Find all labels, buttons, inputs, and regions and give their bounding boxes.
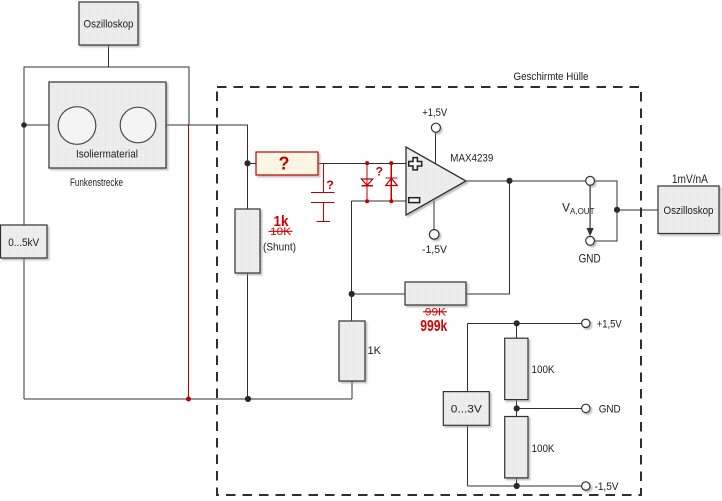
- op-amp - symbol: [409, 198, 420, 203]
- resistor Rf 999k body: [405, 282, 466, 305]
- source box 0...3V: [443, 392, 489, 426]
- wire +1.5V supply to op-amp: [435, 132, 437, 164]
- wire shunt bottom to rail: [247, 273, 249, 399]
- wire scope-top drop: [108, 45, 110, 67]
- wire left vertical lower: [23, 258, 25, 399]
- wire R100K-2 to bottom rail: [516, 478, 518, 486]
- wire Rf right up to output: [466, 181, 510, 294]
- capacitor C? (red) lead: [323, 163, 325, 192]
- svg-text:1K: 1K: [368, 345, 382, 357]
- wire node to R? left: [248, 162, 257, 164]
- svg-text:1mV/nA: 1mV/nA: [672, 172, 708, 186]
- wire GND tap: [517, 407, 582, 409]
- diode D1 (left, anode up): [361, 163, 372, 201]
- junction node divider mid: [514, 405, 520, 411]
- node dot D2 bottom (red): [389, 199, 393, 203]
- svg-text:999k: 999k: [420, 318, 447, 335]
- wire loop right vertical (black part): [188, 67, 190, 126]
- wire source bottom vertical: [466, 425, 468, 486]
- svg-text:99K: 99K: [425, 307, 447, 319]
- spark gap box (Isoliermaterial / Funkenstrecke): [49, 82, 166, 168]
- svg-text:?: ?: [326, 178, 333, 192]
- wire -input down to feedback node: [351, 201, 353, 294]
- svg-text:MAX4239: MAX4239: [450, 153, 493, 165]
- junction node scope tap: [614, 207, 620, 213]
- wire spark-gap left stub: [24, 124, 49, 126]
- diode D2 (right, anode down): [386, 163, 398, 201]
- wire op-amp -input: [352, 200, 406, 202]
- capacitor C? plates: [311, 193, 335, 222]
- svg-text:GND: GND: [579, 252, 601, 266]
- svg-text:?: ?: [376, 165, 383, 179]
- electrode right: [120, 107, 156, 143]
- wire divider bottom rail: [467, 485, 582, 487]
- terminal -1.5V (op-amp supply): [429, 230, 439, 240]
- svg-text:GND: GND: [599, 403, 621, 415]
- svg-text:(Shunt): (Shunt): [263, 242, 296, 254]
- svg-text:?: ?: [279, 154, 290, 174]
- wire top horizontal: [24, 66, 189, 68]
- svg-text:0...3V: 0...3V: [451, 404, 483, 416]
- wire red vertical: [188, 125, 190, 399]
- electrode left: [58, 107, 96, 145]
- wire bottom horizontal: [24, 398, 352, 400]
- wire node to shunt top: [247, 163, 249, 209]
- junction node loop-left: [21, 122, 27, 128]
- terminal +1.5V (divider): [582, 319, 590, 327]
- svg-text:-1,5V: -1,5V: [595, 481, 620, 493]
- resistor R100K lower body: [505, 417, 528, 478]
- wire left vertical upper: [23, 67, 25, 226]
- svg-text:Geschirmte Hülle: Geschirmte Hülle: [514, 71, 589, 83]
- wire source top vertical: [466, 323, 468, 391]
- op-amp U1 MAX4239: [406, 147, 493, 215]
- terminal -1.5V (divider): [582, 482, 590, 490]
- junction node shunt-top (node A): [244, 160, 250, 166]
- wire between 100K resistors: [516, 400, 518, 417]
- measurement arrow: [587, 185, 594, 236]
- wire to scope right: [617, 209, 658, 211]
- junction node red on bottom rail: [186, 397, 191, 402]
- svg-text:Oszilloskop: Oszilloskop: [84, 19, 134, 31]
- output GND terminal (bottom circle): [586, 236, 595, 245]
- junction node bottom rail: [245, 396, 251, 402]
- label 99K struck out: [423, 307, 447, 319]
- svg-text:-1,5V: -1,5V: [422, 244, 448, 256]
- HV source box 0...5kV: [1, 225, 48, 258]
- op-amp + symbol: [409, 158, 422, 170]
- wire divider top rail: [467, 322, 582, 324]
- svg-text:10K: 10K: [270, 226, 292, 238]
- junction node feedback: [349, 291, 355, 297]
- svg-text:0...5kV: 0...5kV: [8, 237, 40, 249]
- svg-text:+1,5V: +1,5V: [422, 107, 448, 119]
- resistor Rshunt body: [235, 209, 260, 273]
- wire -1.5V supply to op-amp: [433, 201, 435, 230]
- oscilloscope box top (Oszilloskop): [79, 2, 138, 45]
- label 10K struck out: [269, 226, 293, 238]
- svg-text:100K: 100K: [532, 443, 556, 455]
- wire spark-gap right stub: [166, 125, 248, 163]
- shielded enclosure dashed border (Geschirmte Huelle): [217, 87, 641, 495]
- wire R? to op-amp +input: [318, 162, 406, 164]
- svg-text:100K: 100K: [532, 364, 556, 376]
- junction node divider top: [514, 320, 520, 326]
- junction node output: [506, 178, 512, 184]
- oscilloscope box right (Oszilloskop): [658, 186, 719, 234]
- node dot D2 top (red): [389, 161, 393, 165]
- svg-text:+1,5V: +1,5V: [597, 318, 623, 330]
- resistor R? (red, unknown): [256, 152, 318, 175]
- svg-text:Oszilloskop: Oszilloskop: [664, 205, 714, 217]
- wire top rail to R100K-1: [516, 323, 518, 338]
- terminal GND (divider): [582, 404, 590, 412]
- wire output terminal loop: [595, 181, 618, 241]
- output terminal VA,OUT (top circle): [586, 176, 595, 185]
- svg-text:Isoliermaterial: Isoliermaterial: [76, 149, 138, 161]
- node dot D1 bottom (red): [365, 199, 369, 203]
- wire R1k bottom to rail: [351, 381, 353, 399]
- wire feedback node to Rf left: [352, 293, 405, 295]
- wire feedback node to R1k top: [351, 294, 353, 321]
- resistor R100K upper body: [505, 338, 528, 399]
- wire op-amp output: [466, 180, 586, 182]
- node dot D1 top (red): [365, 161, 369, 165]
- junction node divider bottom: [514, 483, 520, 489]
- resistor R1K body: [339, 321, 365, 381]
- svg-text:Funkenstrecke: Funkenstrecke: [70, 177, 123, 189]
- terminal +1.5V (op-amp supply): [431, 123, 440, 132]
